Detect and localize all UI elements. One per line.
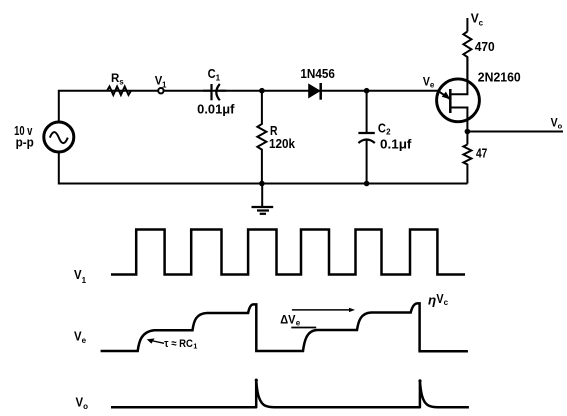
- svg-text:s: s: [119, 78, 124, 87]
- node Vo junction: [465, 129, 471, 135]
- wire top rail: [59, 91, 438, 121]
- node V1: [158, 88, 163, 93]
- resistor 47: [463, 145, 471, 184]
- svg-text:τ ≈ RC: τ ≈ RC: [164, 338, 193, 350]
- label Ve (waveform): [74, 329, 87, 345]
- capacitor C1: [203, 84, 226, 100]
- label Vo (waveform): [76, 396, 89, 412]
- capacitor C2: [358, 91, 374, 184]
- svg-text:47: 47: [476, 146, 487, 160]
- waveform Vo trace: [111, 380, 469, 408]
- label Vc: [471, 11, 484, 28]
- label 10v p-p: [14, 124, 34, 149]
- label V1 (waveform): [74, 268, 87, 285]
- svg-text:1: 1: [216, 74, 221, 83]
- svg-text:0.01μf: 0.01μf: [197, 103, 235, 117]
- Vo spike tip blobs: [255, 379, 258, 382]
- ground: [252, 184, 274, 214]
- label 470: [475, 39, 495, 54]
- label eta-Vc: [428, 291, 449, 307]
- svg-text:470: 470: [475, 39, 495, 54]
- svg-text:1: 1: [82, 276, 87, 285]
- svg-text:1N456: 1N456: [300, 66, 335, 81]
- label 0.1uf: [380, 137, 412, 151]
- junction node B bottom: [364, 181, 370, 187]
- supply Vc wire: [466, 18, 468, 32]
- label Rs: [111, 71, 124, 87]
- svg-text:e: e: [296, 318, 301, 327]
- transistor Q1 2N2160 UJT body: [437, 79, 480, 122]
- label Ve: [423, 75, 435, 90]
- svg-text:2: 2: [386, 128, 391, 137]
- label Vo: [551, 117, 563, 130]
- Q1 base-one lead: [450, 108, 467, 145]
- resistor Rs: [107, 87, 131, 95]
- svg-text:c: c: [479, 18, 484, 27]
- svg-text:η: η: [428, 293, 437, 307]
- svg-text:R: R: [270, 124, 278, 138]
- svg-text:o: o: [83, 402, 88, 411]
- wire bottom rail: [59, 153, 468, 184]
- junction node A (C1/R/diode): [259, 88, 265, 94]
- svg-text:e: e: [82, 336, 87, 345]
- label V1: [155, 74, 167, 90]
- svg-text:2N2160: 2N2160: [478, 70, 521, 85]
- Q1 emitter lead with arrow: [438, 91, 450, 99]
- label tau = RC1 with arrow: [164, 338, 197, 351]
- label 47: [476, 146, 487, 160]
- label C1: [208, 67, 221, 83]
- waveform V1 trace: [111, 230, 465, 275]
- svg-text:c: c: [444, 298, 449, 307]
- Q1 base bar: [449, 89, 452, 113]
- waveform Ve trace: [101, 303, 468, 351]
- svg-text:p-p: p-p: [16, 135, 35, 149]
- label 2N2160: [478, 70, 521, 85]
- diode D1 1N456: [309, 84, 320, 97]
- resistor 470: [463, 32, 471, 81]
- junction node A bottom: [259, 181, 265, 187]
- svg-text:0.1μf: 0.1μf: [380, 137, 412, 151]
- svg-text:1: 1: [193, 342, 197, 351]
- label 0.01uf: [197, 103, 235, 117]
- svg-text:C: C: [208, 67, 216, 81]
- junction node B (diode/C2/Ve): [364, 88, 370, 94]
- source VS 10v p-p: [44, 122, 74, 152]
- svg-text:e: e: [430, 81, 435, 90]
- svg-text:V: V: [423, 75, 430, 89]
- svg-text:120k: 120k: [269, 137, 295, 151]
- label 1N456: [300, 66, 335, 81]
- Q1 base-two lead: [450, 57, 467, 94]
- resistor R 120k: [257, 91, 266, 184]
- label R 120k: [269, 124, 295, 151]
- svg-text:o: o: [558, 122, 563, 131]
- svg-text:ΔV: ΔV: [280, 313, 295, 327]
- label delta-Ve with reference lines: [280, 313, 300, 328]
- label C2: [378, 121, 391, 136]
- svg-text:1: 1: [162, 80, 167, 89]
- wire Vo: [467, 131, 563, 133]
- svg-text:C: C: [378, 121, 386, 135]
